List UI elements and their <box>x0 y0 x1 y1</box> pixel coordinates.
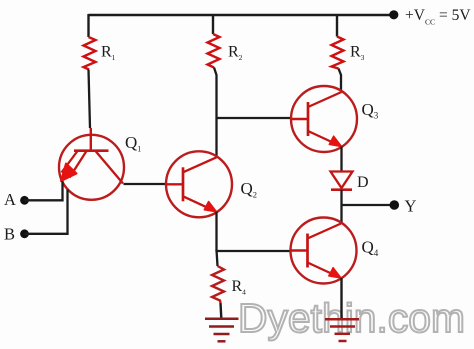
wire Q1 collector to Q2 base <box>124 183 167 185</box>
wire diode to Q4 collector <box>340 190 342 223</box>
svg-text:A: A <box>4 190 16 209</box>
label +Vcc = 5V <box>405 7 471 26</box>
wire input B to Q1 emitter <box>25 190 68 234</box>
resistor R2 <box>208 34 220 68</box>
resistor R4 <box>212 266 224 303</box>
label R4 <box>232 278 247 297</box>
svg-text:Y: Y <box>405 197 417 216</box>
label A <box>4 190 16 209</box>
wire Q2 emitter down to junction <box>215 212 217 252</box>
label D <box>357 174 369 191</box>
wire output Y <box>342 204 391 206</box>
svg-text:Q2: Q2 <box>241 179 258 200</box>
ground under Q4 <box>325 319 359 341</box>
svg-text:R4: R4 <box>232 278 247 297</box>
wire rail stub to R2 <box>212 14 214 34</box>
node input A terminal <box>20 196 29 205</box>
wire R2 down to Q2 collector <box>214 68 217 158</box>
label Y <box>405 197 417 216</box>
svg-text:R2: R2 <box>228 44 243 63</box>
label R1 <box>101 44 116 63</box>
wire rail stub to R1 <box>87 14 89 37</box>
svg-text:R1: R1 <box>101 44 116 63</box>
label Q2 <box>241 179 258 200</box>
resistor R3 <box>332 37 344 69</box>
svg-text:R3: R3 <box>350 44 365 63</box>
label Q3 <box>362 100 379 121</box>
wire R1 to Q1 base <box>89 70 91 129</box>
svg-text:Dyethin.com: Dyethin.com <box>238 295 465 341</box>
wire R3 down to Q3 collector <box>339 69 342 92</box>
watermark Dyethin.com <box>238 295 465 341</box>
label R3 <box>350 44 365 63</box>
resistor R1 <box>84 37 96 70</box>
wire input A to Q1 emitter <box>25 181 63 200</box>
svg-text:Q3: Q3 <box>362 100 379 121</box>
svg-text:Q4: Q4 <box>362 238 379 259</box>
wire junction down to R4 <box>217 250 218 266</box>
svg-text:B: B <box>4 225 15 244</box>
wire Vcc top rail <box>89 14 394 16</box>
svg-text:D: D <box>357 174 369 191</box>
wire rail stub to R3 <box>336 14 338 37</box>
wire junction to Q4 base <box>217 250 291 252</box>
node output Y terminal <box>390 200 400 210</box>
svg-text:Q1: Q1 <box>125 133 141 154</box>
wire Q4 emitter to ground <box>340 278 342 319</box>
transistor Q1 (multi-emitter input) <box>59 128 124 200</box>
wire Q3 emitter to diode <box>340 147 342 172</box>
wire R4 to ground <box>219 303 222 318</box>
transistor Q2 <box>166 151 232 217</box>
label B <box>4 225 15 244</box>
label R2 <box>228 44 243 63</box>
transistor Q3 <box>291 86 357 152</box>
node input B terminal <box>20 229 29 238</box>
ground under R4 <box>205 319 239 342</box>
label Q1 <box>125 133 141 154</box>
diode D <box>331 172 353 190</box>
label Q4 <box>362 238 379 259</box>
svg-text:+VCC = 5V: +VCC = 5V <box>405 7 471 26</box>
transistor Q4 <box>291 218 357 284</box>
node Vcc terminal dot <box>389 10 398 19</box>
wire junction to Q3 base <box>217 117 292 119</box>
